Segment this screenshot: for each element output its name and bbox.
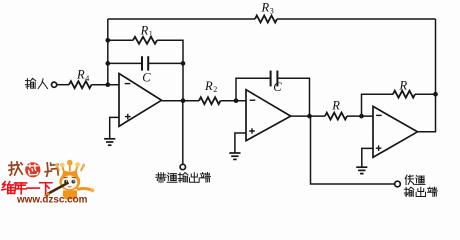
junction op-amp2 inverting input: [234, 98, 239, 103]
lowpass output terminal: [395, 181, 401, 187]
wire R1 branch right + vertical: [157, 40, 183, 63]
svg-text:3: 3: [270, 7, 274, 16]
wire op-amp2 output: [291, 115, 325, 117]
junction op-amp2 output / lowpass node: [307, 114, 312, 119]
capacitor C2: [271, 71, 278, 87]
junction C1 branch right: [181, 61, 186, 66]
wire R to op-amp3: [347, 115, 373, 117]
op-amp U1 minus input mark: [125, 83, 131, 85]
watermark mascot: [45, 160, 95, 200]
watermark 维库一下 red text: [2, 182, 14, 194]
svg-text:R: R: [261, 1, 270, 15]
resistor R series: [325, 113, 347, 120]
svg-text:R: R: [399, 78, 408, 92]
wire top feedback run: [108, 18, 255, 20]
op-amp U1 plus input mark: [125, 114, 131, 120]
wire R2 to op-amp2: [221, 100, 247, 102]
watermark zhao character: [9, 162, 22, 175]
svg-text:2: 2: [213, 85, 217, 94]
wire C2 branch: [236, 78, 270, 100]
wire input lead: [57, 84, 69, 86]
op-amp U3 plus input mark: [376, 145, 382, 151]
ground op-amp2: [229, 153, 240, 159]
wire feedback branch vertical: [362, 94, 394, 116]
label input 输入: [25, 78, 35, 88]
wire op-amp3 plus lead: [362, 148, 373, 167]
svg-text:C: C: [142, 71, 151, 85]
junction input node: [105, 82, 110, 87]
ground op-amp3: [356, 167, 367, 173]
wire C2 branch right: [278, 78, 309, 116]
svg-text:R: R: [204, 79, 213, 93]
bandpass output terminal: [180, 164, 185, 169]
wire feedback branch right: [415, 93, 436, 95]
resistor R feedback: [393, 91, 415, 98]
resistor R4: [69, 81, 92, 88]
op-amp U1: [119, 74, 162, 127]
wire input to op-amp1: [92, 84, 120, 86]
input terminal: [52, 82, 57, 87]
junction R1 branch left: [105, 38, 110, 43]
junction op-amp1 output / bandpass node: [181, 98, 186, 103]
junction C1 branch left: [105, 61, 110, 66]
watermark pian character: [44, 162, 59, 177]
resistor R2: [199, 97, 221, 104]
wire op-amp2 plus lead: [235, 133, 246, 153]
op-amp U2: [246, 90, 291, 141]
wire left vertical node A: [107, 19, 109, 85]
wire op-amp1 output: [162, 100, 200, 102]
svg-text:R: R: [331, 99, 340, 113]
ground op-amp1: [104, 139, 115, 145]
wire top right run: [277, 18, 436, 20]
svg-text:4: 4: [85, 74, 89, 83]
svg-text:www.dzsc.com: www.dzsc.com: [16, 194, 88, 204]
svg-text:C: C: [273, 80, 282, 94]
wire lowpass drop: [311, 116, 395, 184]
label lowpass 输出端: [404, 187, 413, 196]
resistor R3: [255, 16, 277, 23]
wire op-amp1 plus lead: [110, 117, 119, 138]
wire C1 branch right: [149, 62, 183, 64]
capacitor C1: [142, 56, 148, 70]
wire C1 branch left: [108, 62, 141, 64]
label lowpass 低通: [405, 175, 414, 185]
svg-text:1: 1: [149, 30, 153, 39]
watermark red circle + xin character: [25, 162, 40, 177]
junction op-amp3 inverting input: [359, 114, 364, 119]
wire right vertical to op-amp3 output: [418, 19, 436, 132]
svg-text:R: R: [76, 68, 85, 82]
op-amp U2 plus input mark: [249, 128, 255, 134]
resistor R1: [133, 37, 157, 44]
op-amp U2 minus input mark: [250, 99, 256, 101]
wire vertical C1 node to output: [182, 63, 184, 100]
label bandpass 带通输出端: [156, 173, 166, 183]
wire bandpass drop: [182, 101, 184, 165]
junction feedback R / op-amp3 output node: [433, 92, 438, 97]
op-amp U3: [373, 106, 418, 157]
op-amp U3 minus input mark: [376, 114, 382, 116]
svg-text:R: R: [140, 23, 149, 37]
wire R1 branch: [108, 39, 133, 41]
